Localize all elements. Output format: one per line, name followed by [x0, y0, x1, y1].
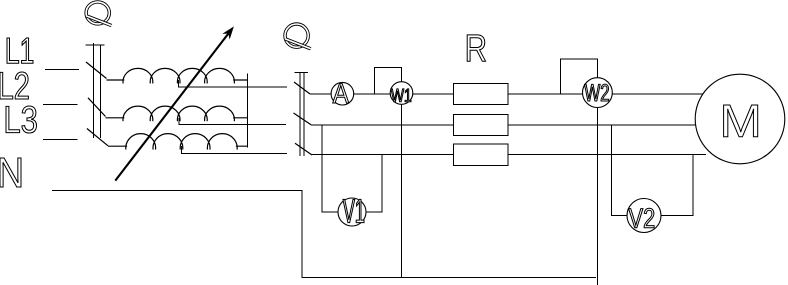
wire W2 voltage loop: [561, 59, 598, 94]
wire V2 right: [661, 155, 693, 216]
switch Q1 blade pole3: [87, 129, 108, 146]
voltmeter V1 circle: [338, 198, 366, 226]
label L1: [7, 38, 33, 63]
inductor winding row3: [108, 134, 248, 150]
voltmeter V2 circle: [627, 199, 661, 233]
label L3: [6, 106, 37, 133]
wire W2 down to bus: [596, 94, 598, 285]
switch Q1 blade pole2: [88, 98, 106, 117]
switch Q2 cap: [295, 71, 308, 73]
label N: [0, 158, 21, 187]
wire W1 voltage loop: [375, 67, 402, 94]
wire N down: [301, 191, 303, 279]
wire V1 left: [322, 125, 338, 212]
wire tap row3: [181, 146, 287, 153]
wattmeter W1 circle: [390, 82, 413, 105]
variac adjustment arrow: [115, 28, 233, 181]
switch Q1 blade pole1: [86, 62, 107, 79]
switch Q1 cap: [86, 44, 105, 46]
label R: [467, 35, 485, 61]
wire line1: [310, 93, 704, 95]
switch Q2 bar right: [303, 72, 305, 156]
star point bar: [247, 74, 249, 148]
wire line3: [312, 154, 706, 156]
wire L1 stub: [45, 68, 79, 70]
label M in motor: [724, 105, 758, 137]
wattmeter W2 circle: [583, 78, 613, 108]
resistor R row2: [454, 115, 509, 136]
label A in ammeter: [333, 83, 349, 103]
wire line2: [311, 124, 697, 126]
wire W1 down to bus: [401, 94, 403, 278]
wire V1 right: [366, 155, 382, 213]
wire V2 left: [612, 125, 628, 216]
label V1 in voltmeter V1: [343, 199, 364, 222]
label W1 in wattmeter W1: [391, 89, 411, 102]
label W2 in wattmeter W2: [585, 84, 609, 101]
switch Q1 bar right: [99, 45, 101, 138]
wire N horizontal: [52, 190, 303, 192]
switch Q2 bar left: [299, 72, 301, 156]
label Q2 (switch Q): [285, 24, 311, 49]
switch Q2 blade pole3: [295, 143, 312, 155]
inductor winding row2: [106, 106, 248, 121]
switch Q2 blade pole1: [294, 82, 310, 94]
resistor R row1: [454, 84, 509, 105]
motor M circle: [695, 74, 785, 164]
wire tap row2: [179, 118, 286, 125]
wire tap row1: [179, 80, 287, 87]
wire L3 stub: [43, 139, 78, 141]
switch Q2 blade pole2: [294, 113, 312, 125]
switch Q1 bar left: [92, 43, 94, 138]
wire L2 stub: [43, 104, 78, 106]
label L2: [0, 72, 28, 99]
ammeter A circle: [331, 82, 354, 105]
resistor R row3: [454, 144, 509, 166]
label Q1 (switch Q): [86, 2, 112, 26]
label V2 in voltmeter V2: [629, 208, 655, 227]
wire bottom bus: [302, 277, 596, 279]
inductor winding row1: [107, 68, 248, 83]
